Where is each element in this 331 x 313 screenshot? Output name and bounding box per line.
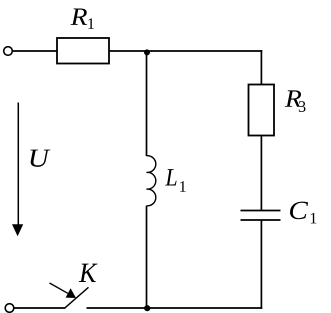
wire junction down to L1 (146, 51, 148, 156)
label K (79, 264, 98, 282)
inductor L1 (147, 156, 156, 206)
label U (30, 150, 50, 167)
label C1 (290, 202, 308, 219)
voltage arrow U (17, 103, 19, 227)
resistor R1 (57, 38, 109, 64)
wire right side down to R3 (260, 50, 262, 84)
terminal top-left (4, 47, 13, 56)
node junction top (144, 49, 150, 55)
capacitor C1 (241, 210, 281, 212)
wire bottom terminal to switch (14, 307, 66, 309)
label L1 (165, 169, 176, 185)
terminal bottom-left (5, 304, 14, 313)
wire top terminal to R1 (12, 50, 57, 52)
switch arrow (50, 283, 69, 293)
wire C1 to bottom-right corner (260, 220, 262, 309)
label R3 (285, 90, 301, 106)
wire R1 to top-right corner (109, 50, 262, 52)
node junction bottom (144, 305, 150, 311)
switch K blade (65, 287, 89, 308)
wire switch to bottom junction (87, 307, 263, 309)
resistor R3 (249, 85, 275, 136)
wire L1 to bottom junction (146, 206, 148, 308)
wire R3 to C1 (260, 136, 262, 211)
label R1 (71, 9, 87, 25)
